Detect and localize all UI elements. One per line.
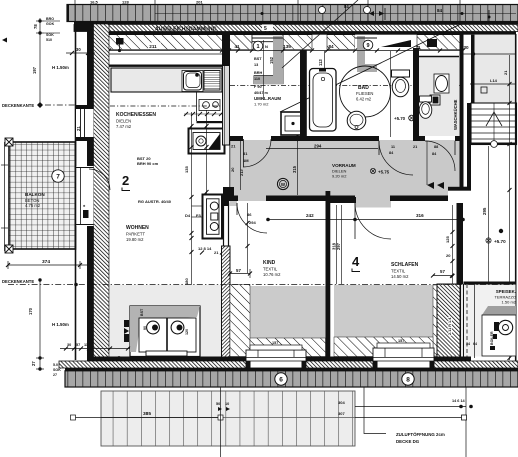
svg-text:PARKETT: PARKETT (126, 232, 145, 237)
svg-text:40/47 m: 40/47 m (254, 91, 269, 95)
svg-text:BRO: BRO (46, 17, 54, 21)
kitchen knee-wall shelf line (109, 53, 222, 55)
dim ticks row left bottom (60, 348, 130, 350)
svg-text:13: 13 (254, 63, 258, 67)
roof tile band (top) (67, 5, 518, 22)
dim bubbles on roof line (319, 7, 371, 14)
speis inner white rect (482, 315, 516, 356)
terrace paver grid (101, 391, 355, 446)
svg-text:KOCHEN/ESSEN: KOCHEN/ESSEN (116, 112, 156, 118)
svg-text:110: 110 (254, 77, 260, 81)
svg-text:374: 374 (42, 259, 50, 265)
grey tongue right room door (448, 177, 463, 187)
svg-text:9: 9 (366, 43, 369, 49)
schlafen grey carpet core (334, 285, 433, 337)
room number 2 (122, 173, 130, 191)
balcony label (25, 192, 45, 208)
wall wohnen-kind upper (double line) (224, 203, 229, 246)
svg-text:19.80 m2: 19.80 m2 (126, 237, 144, 242)
svg-text:6.42 m2: 6.42 m2 (356, 97, 372, 102)
deckenkante label upper (2, 38, 76, 109)
svg-text:KIND: KIND (263, 260, 276, 266)
svg-text:+5.70: +5.70 (494, 239, 506, 244)
niche fixture circle right (171, 321, 184, 334)
roof eave thick edge (74, 22, 518, 25)
svg-text:GOK: GOK (46, 22, 55, 26)
svg-text:H 1.50m: H 1.50m (52, 65, 69, 70)
svg-text:N: N (265, 44, 268, 49)
balcony door opening in left wall (76, 166, 94, 226)
roof-slope hatch zone (kitchen) (108, 35, 252, 50)
dim row under cupboard (198, 246, 224, 255)
bathtub (310, 69, 337, 132)
svg-text:27: 27 (31, 361, 36, 366)
door jamb stubs KIND (234, 196, 269, 202)
washbasin WASCH (434, 74, 449, 93)
speis room floor (464, 285, 516, 357)
wasch floor tint (419, 57, 459, 136)
top exterior wall (87, 32, 516, 35)
dim 30 top-left (66, 52, 95, 54)
svg-text:5.0: 5.0 (53, 363, 58, 367)
wohnen window niche (130, 306, 200, 357)
svg-text:152: 152 (269, 56, 274, 64)
speis small black marks (490, 334, 497, 350)
svg-text:BST: BST (140, 308, 144, 316)
window sill labels stack (254, 57, 269, 95)
interior dim chain y=50 (95, 50, 463, 52)
svg-text:34: 34 (466, 342, 470, 346)
svg-text:88: 88 (434, 145, 438, 149)
grey tongue at schlafen door (355, 196, 391, 208)
umkl center dim line (263, 40, 265, 100)
svg-text:201: 201 (196, 0, 203, 5)
svg-text:12 8 14: 12 8 14 (198, 246, 212, 251)
right edge dim chain (509, 55, 511, 360)
svg-text:TEXTIL: TEXTIL (263, 267, 278, 272)
svg-text:135: 135 (184, 166, 189, 173)
schlafen left dim 318 (336, 205, 338, 284)
svg-text:57: 57 (440, 269, 445, 274)
niche tiny marks (140, 308, 189, 335)
speis label (494, 289, 516, 305)
roof-slope hatch zone (between windows) (283, 35, 312, 50)
vorraum top wall segments (230, 136, 244, 141)
svg-text:21#: 21# (239, 169, 244, 176)
wall schlafen-speis upper (457, 203, 464, 284)
kind low-headroom hatch left (230, 285, 250, 357)
kind grey carpet core (250, 286, 326, 338)
svg-text:H 1.50m: H 1.50m (52, 322, 69, 327)
svg-text:7: 7 (56, 173, 60, 180)
svg-text:30: 30 (67, 343, 71, 347)
niche fixture circle left (147, 321, 160, 334)
balcony deck grid (9, 142, 76, 249)
left wall masonry hatch (94, 24, 110, 361)
svg-text:FLIESEN: FLIESEN (356, 91, 373, 96)
svg-text:L14: L14 (490, 78, 498, 83)
left wall solid core (87, 24, 94, 361)
svg-text:30: 30 (76, 47, 81, 52)
schlafen right dim chain (452, 205, 454, 284)
UMKL room label (254, 96, 281, 107)
door dim labels on top wall (389, 145, 438, 156)
schlafen bottom window assembly (373, 339, 434, 368)
svg-text:21: 21 (503, 70, 508, 75)
vorraum dim 294 (266, 148, 378, 150)
svg-text:D4: D4 (185, 213, 191, 218)
upper ceiling dashed line (rooms) (230, 85, 460, 87)
vorraum left edge line (229, 141, 231, 187)
wall UMKL-BAD (300, 50, 307, 141)
position bubble 6 (275, 373, 287, 385)
wall wohnen-kind lower (hatched) (222, 246, 231, 361)
level mark +5.70 stairwell (486, 238, 506, 244)
svg-text:AUSGLEICHSDÄMMUNG: AUSGLEICHSDÄMMUNG (155, 26, 217, 33)
dormer ridge diagonal (282, 0, 358, 68)
balcony width dim 374 (8, 261, 88, 269)
dim lines above roof (75, 0, 460, 22)
balcony corner post bottom (5, 245, 13, 253)
svg-text:DIELEN: DIELEN (116, 119, 131, 124)
speis splay grey band (482, 306, 516, 315)
svg-text:304: 304 (338, 400, 345, 405)
svg-text:DECKE DG: DECKE DG (396, 439, 420, 444)
svg-text:SPEISEK.: SPEISEK. (496, 289, 516, 294)
balcony left dim line (1, 142, 8, 251)
svg-text:WOHNEN: WOHNEN (126, 225, 149, 231)
shower tray (281, 112, 305, 135)
svg-text:2: 2 (122, 173, 129, 188)
svg-text:2.11 R 1.4: 2.11 R 1.4 (448, 317, 452, 335)
svg-text:BRH: BRH (254, 71, 262, 75)
schlafen room label (391, 262, 419, 279)
right bottom dim lines (355, 387, 466, 457)
door arc KIND (237, 203, 267, 233)
schlafen dim 57 (433, 275, 452, 277)
roof slope diagonal line (280, 22, 465, 112)
schlafen low-headroom hatch bottom (334, 337, 433, 357)
bad dim line vertical (325, 51, 391, 137)
svg-text:11: 11 (84, 343, 88, 347)
svg-text:27: 27 (53, 373, 57, 377)
wall kitchen-vorraum (vertical, grey core) (223, 34, 230, 145)
counter return along wall (197, 92, 223, 123)
svg-text:SOK: SOK (53, 368, 61, 372)
kind left dim line (247, 203, 249, 273)
balcony corner post top (5, 138, 13, 146)
junction dot on bottom wall (117, 356, 122, 361)
svg-text:BALKON: BALKON (25, 192, 45, 197)
svg-text:DECKENKANTE: DECKENKANTE (2, 279, 34, 284)
vorraum floor (grey) (230, 140, 464, 206)
insulation hatch strip (top wall section) (74, 25, 518, 33)
svg-text:30: 30 (463, 45, 469, 50)
small black marks left of niche (124, 320, 129, 342)
svg-text:F3: F3 (196, 213, 201, 218)
balcony door swing arc (89, 169, 110, 190)
bottom exterior wall (87, 357, 471, 362)
svg-text:1.50 m2: 1.50 m2 (502, 300, 517, 305)
roof band dimension line (155, 13, 516, 15)
svg-text:20: 20 (446, 253, 451, 258)
kind dim 57 (229, 269, 250, 278)
svg-text:318: 318 (332, 242, 337, 250)
washbasin BAD (347, 111, 366, 130)
svg-text:242: 242 (306, 213, 314, 218)
svg-text:7.47 m2: 7.47 m2 (116, 124, 132, 129)
svg-text:1.70 m2: 1.70 m2 (254, 102, 269, 107)
svg-text:DECKENKANTE: DECKENKANTE (2, 103, 34, 108)
boiler (490, 320, 513, 345)
vorraum dim 315 vertical (297, 141, 299, 195)
door arc UMKL (243, 139, 271, 167)
svg-text:157: 157 (398, 339, 404, 343)
niche bottom vent rect (146, 351, 187, 356)
svg-text:SCHLAFEN: SCHLAFEN (391, 262, 419, 268)
window niche UMKL: splayed reveal (252, 35, 283, 84)
ceiling-edge dash-dot line across plan (8, 284, 516, 286)
svg-text:57: 57 (76, 343, 80, 347)
svg-text:294: 294 (314, 144, 322, 149)
svg-text:+5.75: +5.75 (378, 170, 390, 175)
dim end markers (459, 405, 473, 409)
kitchen hob grill (204, 71, 220, 91)
stairwell left wall (467, 103, 471, 191)
vorraum label (332, 163, 356, 179)
door swing end flags (427, 182, 444, 189)
svg-text:ZULUFTÖFFNUNG 2cm: ZULUFTÖFFNUNG 2cm (396, 432, 445, 437)
wall line right of ziegel (461, 284, 464, 361)
svg-text:BRH 90 cm: BRH 90 cm (137, 161, 159, 166)
svg-text:RG AUSTR. 40/40: RG AUSTR. 40/40 (138, 199, 172, 204)
svg-text:294: 294 (249, 220, 256, 225)
window sill label BST (137, 156, 159, 166)
window niche BAD: splayed reveal (355, 35, 377, 75)
kind room label (263, 260, 281, 277)
svg-text:8: 8 (406, 377, 410, 384)
svg-text:+5.70: +5.70 (394, 116, 406, 121)
toilet BAD (392, 70, 410, 97)
door arc SCHLAFEN (355, 203, 391, 239)
kitchen window in left wall (76, 105, 94, 141)
position bubble 1 (253, 41, 263, 51)
wall BAD-WASCH (413, 48, 419, 141)
junction diamond (295, 135, 301, 142)
right outer wall line (515, 34, 517, 361)
black wedge wall piece near WASCH (427, 39, 437, 47)
kitchen wall top thick line (109, 65, 222, 67)
wall schlafen-speis hatched (ziegel) (437, 284, 460, 359)
position bubble 8 (402, 373, 414, 385)
svg-text:4.75 m2: 4.75 m2 (25, 203, 41, 208)
wall piece right middle (448, 187, 471, 191)
svg-text:211: 211 (149, 44, 157, 49)
svg-text:9.20 m2: 9.20 m2 (332, 174, 347, 179)
upper ceiling-edge dashed line (kitchen) (110, 105, 222, 107)
counter small appliance box (199, 100, 220, 111)
svg-text:84: 84 (437, 8, 443, 13)
kitchen counter (111, 68, 222, 92)
wall kind-schlafen (326, 191, 331, 361)
wohnen lower floor tint (110, 285, 221, 357)
position bubble 7 (52, 170, 64, 182)
svg-text:UMKL.RAUM: UMKL.RAUM (254, 96, 281, 101)
survey flag P5 (116, 38, 124, 52)
svg-text:125: 125 (445, 236, 450, 243)
bottom eave thick line (65, 368, 518, 371)
tall cupboard with 3 rings (203, 195, 223, 239)
dim row y219 (268, 219, 463, 221)
svg-text:41: 41 (234, 44, 240, 49)
dashed stair wall line (466, 284, 468, 360)
svg-text:SOK: SOK (46, 33, 54, 37)
svg-text:197: 197 (32, 66, 37, 74)
kitchen room label (116, 112, 156, 129)
svg-text:WASCHKÜCHE: WASCHKÜCHE (453, 99, 458, 130)
svg-text:10: 10 (225, 402, 229, 406)
door arc BAD (into vorraum) (379, 141, 413, 175)
hatch strip left end block (74, 24, 87, 32)
schlafen top wall jog (330, 199, 355, 203)
door arc WASCH (into vorraum) (425, 141, 455, 171)
schlafen low-headroom hatch right (433, 285, 457, 356)
svg-text:14.50 m2: 14.50 m2 (391, 274, 409, 279)
svg-text:21: 21 (76, 126, 81, 131)
door leaf UMKL (243, 139, 245, 167)
bottom insulation hatch strip (59, 361, 518, 368)
svg-text:21: 21 (214, 250, 219, 255)
svg-text:1M: 1M (243, 158, 249, 163)
kind low-headroom hatch bottom (250, 338, 326, 357)
wohnen dim chain B (206, 110, 208, 194)
left dim chain lower (36, 280, 44, 369)
dim line right top (470, 83, 516, 85)
svg-text:4: 4 (352, 254, 360, 269)
svg-text:TEXTIL: TEXTIL (391, 269, 406, 274)
svg-text:385: 385 (143, 411, 151, 417)
junction dot (499, 229, 503, 233)
door jamb stubs SCHLAFEN (352, 196, 394, 204)
door frame line BAD door (426, 141, 428, 185)
svg-text:16,5: 16,5 (90, 0, 99, 5)
BAD room label (356, 85, 373, 102)
svg-text:6: 6 (279, 377, 283, 384)
svg-text:64: 64 (473, 342, 477, 346)
svg-text:180: 180 (184, 278, 189, 285)
svg-text:VORRAUM: VORRAUM (332, 163, 356, 168)
svg-text:90: 90 (143, 326, 147, 330)
svg-text:21: 21 (413, 145, 417, 149)
black wedge wall piece right of BAD window (381, 40, 411, 47)
svg-text:21: 21 (231, 144, 236, 149)
svg-text:510: 510 (46, 38, 52, 42)
svg-text:1: 1 (256, 44, 259, 50)
svg-text:113: 113 (318, 59, 323, 66)
svg-text:315: 315 (292, 165, 297, 173)
deckenkante label lower (2, 279, 78, 286)
stair flight (471, 103, 517, 147)
level mark +5.75 (370, 168, 389, 174)
stove island unit (189, 129, 225, 154)
small cabinet squares WASCH (430, 95, 440, 105)
upper right landing (grey) (475, 35, 517, 103)
toilet WASCH (419, 96, 432, 118)
kind bottom window assembly (246, 341, 306, 368)
svg-text:5: 5 (264, 26, 267, 32)
zuluft leader + note (364, 387, 445, 444)
svg-text:307: 307 (338, 411, 345, 416)
vorraum bottom wall segments (267, 196, 355, 202)
wall right of WASCH (460, 34, 464, 191)
level mark +5.70 BAD (394, 115, 414, 121)
headroom circle BAD (340, 66, 391, 117)
left dim chain upper (36, 18, 44, 105)
kind right dim vertical 297 (341, 205, 343, 284)
svg-text:135: 135 (283, 44, 291, 49)
dim ticks under appliance box (184, 112, 223, 116)
left outer wall face line (75, 22, 77, 360)
wasch room top wall line (419, 56, 459, 58)
living room label WOHNEN (126, 225, 149, 242)
vorraum bottom wall left L piece (223, 187, 234, 206)
svg-text:11: 11 (391, 145, 395, 149)
stairside wall piece redraw (448, 187, 471, 191)
svg-text:14 6 14: 14 6 14 (452, 399, 466, 403)
svg-text:86: 86 (247, 212, 252, 217)
svg-text:316: 316 (416, 213, 424, 218)
svg-text:81: 81 (243, 151, 248, 156)
svg-text:84: 84 (328, 44, 334, 49)
door dim labels kind (247, 212, 256, 225)
kitchen sink (182, 71, 203, 92)
washing machine symbol W (277, 178, 288, 189)
dim 385 (71, 415, 224, 420)
svg-text:295: 295 (482, 207, 487, 215)
room number 4 (352, 254, 360, 272)
svg-text:157: 157 (272, 341, 278, 345)
svg-text:BST: BST (254, 57, 262, 61)
vorraum small dims left (240, 141, 242, 190)
bottom roof tile band (65, 371, 518, 387)
small labels right of chain (46, 17, 55, 42)
svg-text:120: 120 (185, 329, 189, 335)
svg-text:50: 50 (216, 402, 220, 406)
svg-text:57: 57 (236, 268, 241, 273)
svg-text:78: 78 (33, 24, 38, 29)
svg-text:128: 128 (122, 0, 129, 5)
svg-text:10.76 m2: 10.76 m2 (263, 272, 281, 277)
small stack text bottom left (53, 363, 61, 377)
svg-text:20: 20 (230, 167, 235, 172)
svg-text:170: 170 (28, 307, 33, 315)
wohnen dim chain (192, 112, 203, 306)
leader below building center (220, 387, 222, 457)
stairwell dim 295 (488, 146, 490, 284)
position bubble 9 (363, 40, 373, 50)
